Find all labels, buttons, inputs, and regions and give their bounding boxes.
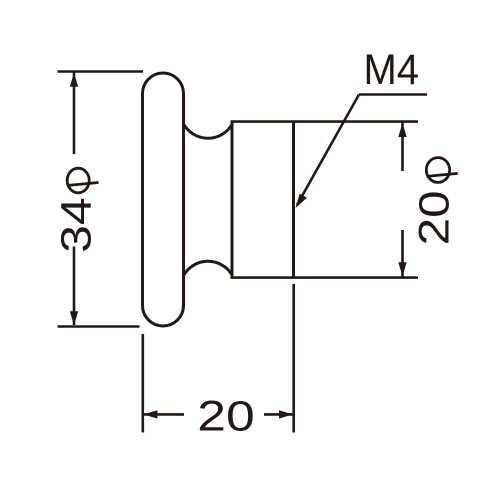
knob head (capsule outline) xyxy=(143,73,184,326)
svg-text:20: 20 xyxy=(411,190,459,245)
body top edge + extension line to 20phi dimension xyxy=(231,120,419,123)
20 arrow left xyxy=(143,410,157,418)
body bottom edge + extension line to 20phi dimension xyxy=(231,276,419,279)
body left face xyxy=(231,122,234,278)
M4 leader arrowhead xyxy=(296,194,308,208)
20 length left extension line xyxy=(142,334,145,433)
20 arrow right xyxy=(279,410,293,418)
34phi arrow down xyxy=(70,311,78,325)
20 dimension line left segment xyxy=(144,413,184,416)
34phi bottom extension line xyxy=(58,325,140,328)
20phi dimension line upper segment xyxy=(401,123,404,172)
34phi arrow up xyxy=(70,73,78,87)
svg-text:34: 34 xyxy=(53,197,101,253)
20phi arrow down xyxy=(398,262,406,276)
neck top concave arc xyxy=(183,123,232,138)
svg-text:M4: M4 xyxy=(364,46,420,94)
20 dimension line right segment xyxy=(264,413,293,416)
M4 leader shoulder xyxy=(359,93,427,96)
body right face xyxy=(292,122,295,278)
34phi dimension line upper segment xyxy=(73,73,76,155)
20phi label digits xyxy=(411,190,459,245)
20phi dimension line lower segment xyxy=(401,230,404,277)
34phi top extension line xyxy=(58,70,144,73)
svg-text:20: 20 xyxy=(197,392,255,440)
34phi label digits xyxy=(53,197,101,253)
20phi label phi symbol xyxy=(426,158,458,183)
M4 leader diagonal xyxy=(297,95,359,206)
20 length right extension line xyxy=(292,284,295,433)
34phi label phi symbol xyxy=(67,168,99,193)
20phi arrow up xyxy=(398,123,406,137)
neck bottom concave arc xyxy=(183,261,232,276)
34phi dimension line lower segment xyxy=(73,247,76,326)
